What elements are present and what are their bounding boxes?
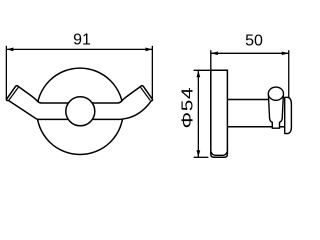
hook post body [268,95,283,128]
dimension phi54: dimension line [197,70,199,157]
left hook tip end-face line [9,87,19,100]
dimension phi54: top arrow [197,70,201,77]
dimension 50: extension line left (plate left edge up) [210,50,212,70]
svg-text:91: 91 [73,32,91,49]
dimension 91: extension line left [5,46,7,99]
plate bottom chamfer line [211,152,227,155]
dimension 50: left arrow [211,51,218,55]
wall plate (side) [211,70,228,157]
svg-text:50: 50 [245,33,263,50]
dimension 50: dimension line [211,52,289,54]
dimension 91: right arrow [145,48,152,52]
dimension 50: extension line right [288,50,290,98]
center knob circle [66,97,95,126]
svg-text:Φ54: Φ54 [178,87,196,129]
dimension phi54: extension line top [194,69,211,71]
dimension phi54: bottom arrow [197,150,201,157]
arm bottom line [227,126,272,128]
right hook tip end-face line [141,87,151,100]
hook post ball top [268,87,283,100]
dimension 91: left arrow [6,48,13,52]
dimension 50: right arrow [282,51,289,55]
dimension 91: dimension line [6,48,152,50]
double hook bar silhouette [6,86,152,120]
arm top line [227,99,268,101]
arm end cap (bar end seen from side) [285,97,292,133]
wall plate circle (front) [37,68,123,154]
dimension phi54: extension line bottom [194,156,209,158]
arm bottom line (right of neck) [280,126,285,128]
dimension 91: extension line right [151,46,153,99]
